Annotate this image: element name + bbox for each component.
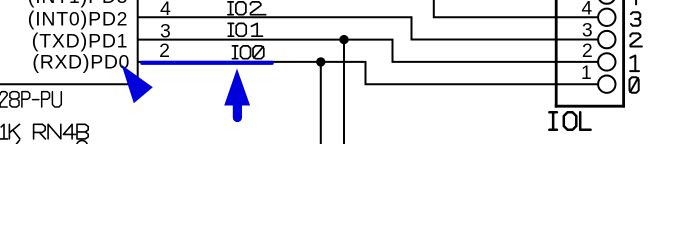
net label IO1 <box>228 23 262 36</box>
cut glyph top below 1K (slash) <box>16 140 19 144</box>
junction dot on IO1 <box>339 35 348 44</box>
connector name IOL <box>549 112 590 130</box>
right bus label digit 1 <box>630 56 639 72</box>
svg-text:(INT1)PD3: (INT1)PD3 <box>28 0 129 8</box>
svg-text:(TXD)PD1: (TXD)PD1 <box>32 30 129 53</box>
wire IO2: IC pin4 row1 to connector pin3 <box>138 17 599 39</box>
svg-text:2: 2 <box>159 40 170 62</box>
resistor network value 1K <box>0 124 20 139</box>
cut glyph top below RN4B (arc) <box>77 140 88 151</box>
svg-text:(RXD)PD0: (RXD)PD0 <box>32 51 130 74</box>
wire IO0: IC pin2 row3 to connector pin1 <box>138 62 599 84</box>
blue up arrow <box>224 69 250 123</box>
connector pin 2 circle <box>598 53 615 70</box>
connector J1 box bottom edge <box>555 105 625 108</box>
wire drop from IO1 junction <box>343 40 345 144</box>
blue pointer arrowhead <box>122 65 153 104</box>
connector J1 box right edge <box>622 0 625 108</box>
right bus label digit 0 <box>630 77 639 93</box>
svg-text:4: 4 <box>581 0 592 19</box>
svg-text:(INT0)PD2: (INT0)PD2 <box>28 8 129 31</box>
connector pin 4 circle <box>598 9 615 26</box>
svg-text:3: 3 <box>582 20 593 42</box>
connector J1 box left edge <box>555 0 558 108</box>
IC U1 ATmega8 body right edge <box>137 0 139 84</box>
blue highlight line on RXD wire <box>140 61 273 65</box>
net label IO0 <box>232 46 263 59</box>
wire feed from top to connector pin4 <box>434 0 598 17</box>
wire IO1: IC pin3 row2 to connector pin2 <box>138 40 599 62</box>
net label IO2 <box>228 2 266 15</box>
right bus label digit 3 <box>631 12 640 26</box>
right bus label digit 2 <box>630 33 642 46</box>
wire drop from IO0 junction <box>320 62 322 144</box>
connector pin circle (cut at top) <box>598 0 615 4</box>
junction dot on IO0 <box>316 57 325 66</box>
IC value text 28P-PU (cut at left) <box>0 92 61 107</box>
resistor network refdes RN4B <box>34 124 89 139</box>
svg-text:1: 1 <box>581 62 592 84</box>
IC U1 body bottom edge <box>0 83 139 85</box>
svg-text:2: 2 <box>582 40 593 62</box>
connector pin 1 circle <box>598 76 615 93</box>
right bus label digit 4 (cut, bottom tip) <box>635 0 637 5</box>
connector pin 3 circle <box>598 31 615 48</box>
